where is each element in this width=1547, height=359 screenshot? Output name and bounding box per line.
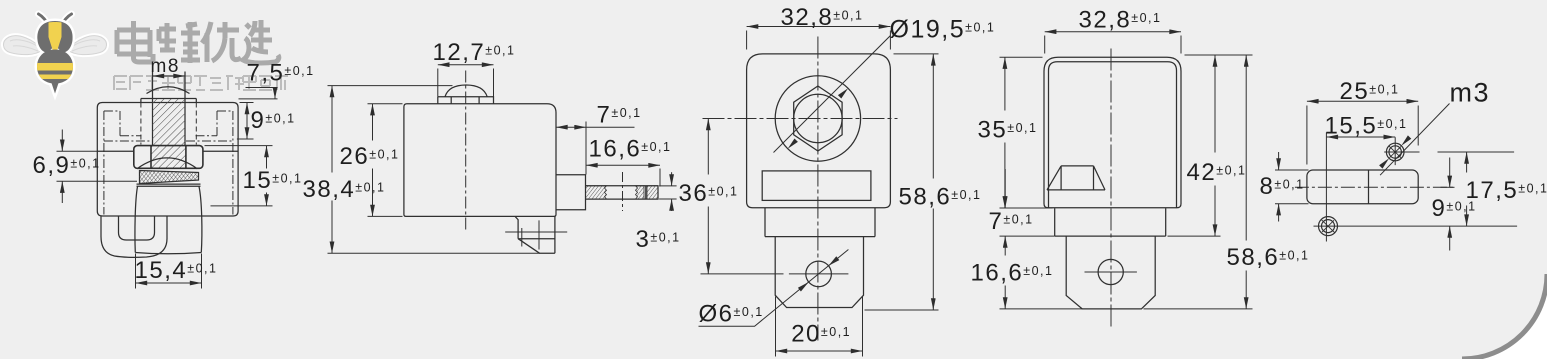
view3 tab bbox=[775, 237, 863, 308]
view1 ferrule hatched band bbox=[140, 171, 199, 184]
svg-text:m8: m8 bbox=[151, 56, 180, 77]
view1 screw shaft sides bbox=[153, 72, 186, 146]
right wing bbox=[68, 36, 107, 55]
view5 plate centerline bbox=[1295, 186, 1454, 188]
head / shoulders halo bbox=[37, 21, 72, 52]
view2 right boss bbox=[556, 175, 586, 210]
view1 internal ledge line bbox=[97, 150, 238, 152]
view1 bell right side bbox=[199, 187, 202, 253]
head / shoulders bbox=[37, 21, 72, 52]
abdomen halo bbox=[37, 50, 73, 84]
view3 vertical centerline bbox=[817, 37, 819, 341]
dim 12,7 bbox=[438, 65, 494, 101]
dim 25 (view5 top) bbox=[1307, 101, 1418, 164]
view4 centerline bbox=[1110, 49, 1112, 329]
view1 hook inner slot bbox=[119, 216, 155, 240]
dim 58,6 (view3 right) bbox=[865, 54, 939, 310]
bee logo bbox=[3, 14, 106, 95]
stinger bbox=[50, 82, 60, 96]
view1 screw hatch bbox=[153, 99, 186, 146]
dim 6,9 (view1 left) bbox=[57, 130, 138, 204]
view5 plate inner edge bbox=[1368, 170, 1370, 204]
brand text 电蜂优选 (schematic glyphs) bbox=[117, 20, 279, 63]
dim 15 (view1 right) bbox=[205, 146, 273, 206]
dim 36 (view3 left) bbox=[701, 119, 784, 274]
view5 m3 hole crosshair bbox=[1384, 137, 1419, 165]
gray arc on bottom-right corner bbox=[1462, 274, 1547, 359]
view2 pin hatch block1 (wavy edge) bbox=[586, 186, 607, 199]
view2 pin hatch block3 bbox=[647, 186, 658, 199]
view1 nut hatch bbox=[151, 146, 186, 169]
dim 9 (view1 right) bbox=[237, 103, 254, 140]
dim 42 (view4 right) bbox=[1168, 55, 1253, 236]
view2 pin outline bbox=[586, 186, 659, 199]
view1 inner phantom profile (dash-dot) bbox=[104, 111, 233, 215]
dim m8 bbox=[153, 72, 186, 99]
dim 26 (view2 left) bbox=[368, 104, 403, 217]
view1 bell bottom bbox=[135, 253, 201, 254]
left wing bbox=[3, 36, 42, 55]
dim 8 (view5 left) bbox=[1275, 152, 1309, 222]
view1 nut bbox=[134, 146, 203, 169]
dim 7,5 bbox=[239, 88, 278, 99]
view2 body outline bbox=[404, 104, 556, 217]
view5 lower hole centerline horizontal / 17,5 ext bbox=[1314, 225, 1518, 227]
dim 32,8 (view3 top) bbox=[747, 27, 891, 50]
view1 boss top bbox=[141, 99, 196, 103]
view5 plate outline bbox=[1307, 170, 1418, 204]
dim 16,6 (view4 left) bbox=[1000, 236, 1083, 309]
dim 20 (view3 bottom) bbox=[776, 297, 863, 357]
蜂 bbox=[159, 22, 200, 63]
view4 cable clamp wedge bbox=[1047, 166, 1105, 190]
电 bbox=[117, 21, 153, 62]
dim 7 (view4 left) bbox=[1004, 169, 1006, 208]
svg-text:m3: m3 bbox=[1450, 78, 1491, 108]
view3 hex nut bbox=[794, 86, 842, 151]
选 bbox=[243, 20, 279, 63]
view1 washer dome bbox=[147, 87, 190, 94]
view3 inner circle bbox=[794, 94, 842, 142]
view1 gland dome arc bbox=[137, 158, 197, 169]
view2 pin centerline bbox=[622, 172, 624, 211]
view1 gland shoulder lines bbox=[137, 184, 201, 186]
view2 step centerlines bbox=[505, 220, 567, 249]
dim Ø6 leader bbox=[699, 250, 849, 327]
view2 pin separator line bbox=[645, 186, 647, 199]
view3 flange bbox=[765, 208, 875, 237]
dim 17,5 (view5 right) bbox=[1466, 152, 1468, 226]
view4 body outer bbox=[1044, 57, 1181, 208]
view3 horizontal centerline bbox=[703, 118, 898, 120]
dim m3 label + leader bbox=[1379, 104, 1449, 176]
view1 boss hidden lines (dashed) bbox=[141, 103, 196, 145]
view4 flange bbox=[1055, 208, 1166, 236]
dim 3 (pin thickness) bbox=[659, 172, 677, 211]
view1 hook outer bbox=[101, 216, 167, 257]
view3 tab hole Ø6 bbox=[806, 261, 832, 287]
subtitle 原厂直采电子连接器商城 (schematic glyphs) bbox=[114, 76, 288, 90]
view5 m3 hole bbox=[1386, 143, 1404, 161]
view4 tab bbox=[1066, 236, 1155, 309]
dim 35 (view4 left) bbox=[1000, 57, 1053, 208]
abdomen yellow stripes bbox=[36, 63, 74, 79]
view3 body outline bbox=[747, 54, 891, 208]
优 bbox=[202, 22, 241, 62]
dim 16,6 (view2 right) bbox=[586, 165, 660, 186]
view4 tab hole crosshair bbox=[1085, 271, 1137, 273]
yellow thorax triangle bbox=[49, 22, 62, 58]
dim 7 (view2 right) bbox=[556, 122, 635, 175]
dim 38,4 (view2 left) bbox=[328, 86, 540, 254]
view3 big circle (Ø19,5) bbox=[775, 76, 860, 161]
dim 58,6 (view4 right) bbox=[1144, 55, 1253, 309]
view5 m3 center ext line right bbox=[1438, 151, 1515, 153]
abdomen bbox=[37, 50, 73, 84]
view2 cap base bbox=[438, 97, 494, 104]
view2 bottom step plate bbox=[515, 216, 555, 253]
view5 lower hole centerline vertical / 15,5 ext bbox=[1325, 133, 1327, 242]
dim 32,8 (view4 top) bbox=[1045, 32, 1181, 54]
view4 body inner wall bbox=[1049, 62, 1177, 208]
view1 body outline bbox=[97, 103, 238, 217]
view1 bell left side bbox=[135, 187, 138, 253]
view3 label plate bbox=[762, 171, 871, 201]
view2 cap dome bbox=[445, 85, 487, 97]
view4 tab hole bbox=[1098, 259, 1123, 284]
view5 lower hole bbox=[1319, 217, 1338, 236]
dim Ø19,5 leader bbox=[774, 36, 891, 153]
dim 15,5 bbox=[1326, 136, 1395, 138]
antennae bbox=[39, 14, 72, 27]
dim 15,4 (view1 bottom) bbox=[136, 254, 202, 289]
view3 tab hole crosshair bbox=[789, 273, 849, 275]
view2 pin hatch block2 (wavy edge) bbox=[636, 186, 645, 199]
dim 9 (view5 right) bbox=[1441, 158, 1455, 251]
view2 centerline bbox=[465, 71, 467, 230]
